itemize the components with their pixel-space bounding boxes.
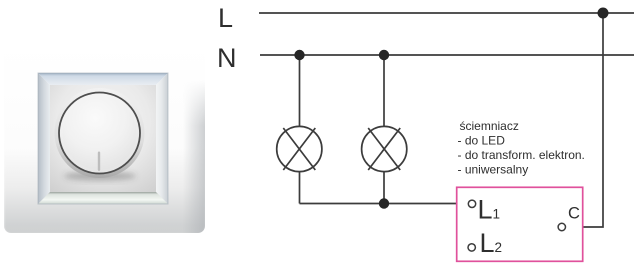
knob ring	[59, 93, 140, 174]
lamp E1 circle	[277, 126, 322, 171]
junction dot on bottom wire	[379, 198, 389, 208]
wire: lamp2 to bottom wire	[383, 171, 385, 204]
wire: N line	[260, 54, 634, 56]
frame right bevel	[156, 73, 168, 204]
svg-text:- do transform. elektron.: - do transform. elektron.	[458, 148, 585, 162]
svg-text:- do LED: - do LED	[458, 134, 506, 148]
frame interior	[50, 85, 156, 192]
knob face	[63, 96, 137, 170]
svg-text:ściemniacz: ściemniacz	[460, 119, 519, 133]
dimmer device photo: wall plate	[4, 44, 205, 233]
wire: from L line down to C terminal	[566, 13, 603, 227]
wall plate right-edge shading	[183, 80, 205, 233]
junction dot on L line	[598, 8, 609, 19]
lamp E2 cross	[368, 128, 400, 170]
wire: L line	[259, 12, 634, 14]
frame bottom bevel	[38, 192, 168, 204]
svg-text:C: C	[568, 205, 580, 223]
knob marker groove	[98, 152, 100, 172]
svg-text:L: L	[218, 3, 233, 33]
dimmer box	[457, 187, 583, 261]
frame outline	[38, 73, 168, 204]
knob shadow	[64, 171, 136, 181]
wire: lamp1 drop from N	[299, 55, 301, 127]
lamp E1 cross	[283, 128, 315, 170]
svg-text:- uniwersalny: - uniwersalny	[458, 162, 529, 176]
frame top bevel	[38, 73, 168, 85]
wire: bottom wire to L1 terminal	[300, 203, 469, 205]
lamp E2 circle	[362, 126, 407, 171]
svg-text:N: N	[217, 43, 237, 73]
terminal L1 circle	[468, 200, 475, 207]
junction dot on N at lamp1	[294, 50, 304, 60]
terminal L2 circle	[468, 244, 475, 251]
knob bezel	[55, 88, 145, 178]
junction dot on N at lamp2	[379, 50, 389, 60]
wire: lamp1 to bottom wire	[299, 171, 301, 204]
wire: lamp2 drop from N	[383, 55, 385, 127]
frame left bevel	[38, 73, 50, 204]
terminal C circle	[558, 223, 565, 230]
